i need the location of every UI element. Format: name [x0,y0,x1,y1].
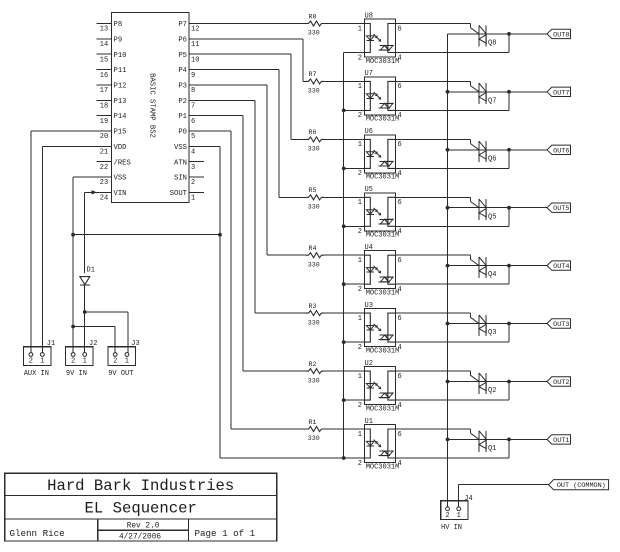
junction ground run / opto ground bus [342,456,346,460]
wire P2 to R3 [204,100,306,313]
svg-text:12: 12 [191,26,199,34]
flag OUT5 [547,203,571,213]
svg-text:330: 330 [308,88,320,95]
junction output node OUT6 [507,148,511,152]
svg-text:6: 6 [191,118,195,126]
pin 9 (P4) of IC, right side [178,67,204,80]
title text Hard Bark Industries [47,477,234,495]
wire J4 pin1 to OUT COMMON [459,485,549,507]
flag OUT2 [547,377,571,387]
svg-text:4: 4 [398,170,402,178]
svg-text:6: 6 [398,431,402,439]
svg-text:Q2: Q2 [488,387,496,395]
pin 10 (P5) of IC, right side [178,52,204,65]
pin 1 (SOUT) of IC, right side [170,190,204,203]
opto-isolator U7 MOC3031M [358,70,402,124]
wire U6 pin2 to ground bus [344,167,365,169]
svg-text:330: 330 [308,435,320,442]
flag OUT (COMMON) [549,480,609,491]
junction ground bus / U2 pin2 [342,398,346,402]
svg-text:HV IN: HV IN [441,524,462,532]
svg-text:OUT2: OUT2 [553,379,569,387]
junction output node OUT4 [507,264,511,268]
wire U7 pin6 to Q7 gate [396,81,480,91]
svg-text:MOC3031M: MOC3031M [366,347,400,355]
triac Q2 [479,373,496,395]
svg-text:330: 330 [308,261,320,268]
wire U6 pin6 to Q6 gate [396,139,480,149]
pin 16 (P11) of IC, left side [97,67,127,80]
wire U4 pin2 to ground bus [344,283,365,285]
svg-text:24: 24 [100,195,108,203]
pin 12 (P7) of IC, right side [178,21,204,34]
flag OUT7 [547,87,571,97]
pin 8 (P3) of IC, right side [178,83,204,96]
svg-text:MOC3031M: MOC3031M [366,405,400,413]
pin 22 (/RES) of IC, left side [97,159,131,172]
svg-text:1: 1 [40,358,44,366]
svg-text:P15: P15 [114,129,127,137]
pin 6 (P1) of IC, right side [178,113,204,126]
svg-text:Q8: Q8 [488,40,496,48]
svg-text:22: 22 [100,164,108,172]
opto-isolator U6 MOC3031M [358,128,402,182]
wire R3 to U3 pin1 [324,312,365,314]
pin 17 (P12) of IC, left side [97,83,127,96]
svg-text:3: 3 [191,164,195,172]
junction HV bus / Q1 [446,438,450,442]
opto-isolator U8 MOC3031M [358,12,402,66]
wire U3 pin4 up to output node [396,324,510,343]
diode D1 [80,267,95,285]
svg-text:P7: P7 [178,21,187,29]
wire U6 pin4 up to output node [396,150,510,169]
svg-text:2: 2 [358,54,362,62]
wire U8 pin4 up to output node [396,34,510,53]
wire Q7 MT2 to OUT7 [486,91,547,93]
pin 13 (P8) of IC, left side [97,21,123,34]
svg-text:2: 2 [445,512,449,520]
svg-text:20: 20 [100,133,108,141]
svg-text:4: 4 [398,286,402,294]
svg-text:1: 1 [358,373,362,381]
wire HV bus to Q3 MT1 [448,323,487,325]
svg-text:1: 1 [358,25,362,33]
wire 9V branch to J3 pin1 [85,312,129,353]
svg-text:9V IN: 9V IN [66,370,87,378]
resistor R5 330 [306,187,324,210]
svg-text:23: 23 [100,179,108,187]
flag OUT4 [547,261,571,271]
svg-text:U2: U2 [365,360,373,368]
svg-text:2: 2 [358,112,362,120]
svg-text:18: 18 [100,102,108,110]
wire U5 pin4 up to output node [396,208,510,227]
wire VSS branch to J3 pin2 [73,327,115,353]
svg-text:2: 2 [358,344,362,352]
svg-text:17: 17 [100,87,108,95]
title block frame [5,473,277,541]
wire HV bus to Q6 MT1 [448,149,487,151]
svg-text:P10: P10 [114,52,127,60]
svg-text:U4: U4 [365,244,373,252]
junction HV bus / Q5 [446,206,450,210]
svg-text:MOC3031M: MOC3031M [366,116,400,124]
svg-text:1: 1 [358,315,362,323]
svg-text:4: 4 [398,112,402,120]
svg-text:2: 2 [113,358,117,366]
svg-text:Q3: Q3 [488,329,496,337]
svg-text:1: 1 [358,257,362,265]
opto-isolator U2 MOC3031M [358,360,402,414]
svg-text:VSS: VSS [174,144,187,152]
junction ground bus / U7 pin2 [342,109,346,113]
svg-text:OUT4: OUT4 [553,263,569,271]
wire Q2 MT2 to OUT2 [486,381,547,383]
pin 18 (P13) of IC, left side [97,98,127,111]
wire U8 pin6 to Q8 gate [396,24,480,34]
svg-text:P4: P4 [178,67,187,75]
svg-text:Glenn Rice: Glenn Rice [10,528,65,539]
junction 9V / J3 branch [83,310,87,314]
svg-text:330: 330 [308,204,320,211]
wire R5 to U5 pin1 [324,196,365,198]
svg-text:P5: P5 [178,52,187,60]
svg-text:21: 21 [100,149,108,157]
svg-text:4: 4 [398,228,402,236]
wire P1 to R2 [204,116,306,372]
svg-text:D1: D1 [87,267,95,275]
pin 19 (P14) of IC, left side [97,113,127,126]
svg-text:2: 2 [358,402,362,410]
title text Glenn Rice [10,528,65,539]
wire U2 pin4 up to output node [396,382,510,401]
svg-text:13: 13 [100,26,108,34]
wire R8 to U8 pin1 [324,23,365,25]
connector J1 AUX IN [23,340,55,378]
svg-text:4: 4 [191,149,195,157]
triac Q4 [479,257,496,279]
resistor R8 330 [306,13,324,36]
svg-text:330: 330 [308,377,320,384]
svg-text:330: 330 [308,30,320,37]
wire D1 to J2 pin1 [84,285,86,353]
title text Page 1 of 1 [195,528,256,539]
svg-text:Q4: Q4 [488,271,496,279]
svg-text:P0: P0 [178,129,187,137]
svg-text:330: 330 [308,146,320,153]
svg-text:/RES: /RES [114,159,131,167]
svg-text:R5: R5 [309,187,317,194]
wire HV bus to Q4 MT1 [448,265,487,267]
resistor R6 330 [306,129,324,152]
wire R1 to U1 pin1 [324,428,365,430]
svg-text:P6: P6 [178,36,187,44]
flag OUT6 [547,145,571,155]
svg-text:4: 4 [398,460,402,468]
svg-text:ATN: ATN [174,159,187,167]
svg-text:2: 2 [358,460,362,468]
opto-isolator U3 MOC3031M [358,302,402,356]
svg-text:R7: R7 [309,71,317,78]
svg-text:OUT3: OUT3 [553,321,569,329]
junction ground bus / U4 pin2 [342,282,346,286]
svg-text:2: 2 [191,179,195,187]
pin 3 (ATN) of IC, right side [174,159,204,172]
opto-isolator U1 MOC3031M [358,418,402,472]
wire U1 pin4 up to output node [396,439,510,458]
svg-text:1: 1 [358,199,362,207]
svg-text:VDD: VDD [114,144,127,152]
wire VIN with arrow [85,190,97,273]
svg-text:OUT (COMMON): OUT (COMMON) [557,482,606,490]
svg-text:6: 6 [398,315,402,323]
flag OUT1 [547,435,571,445]
svg-text:4: 4 [398,54,402,62]
junction output node OUT7 [507,90,511,94]
pin 5 (P0) of IC, right side [178,129,204,142]
svg-text:MOC3031M: MOC3031M [366,174,400,182]
wire HV bus to Q8 MT1 [448,33,487,35]
svg-text:VSS: VSS [114,175,127,183]
svg-text:P1: P1 [178,113,187,121]
junction output node OUT8 [507,32,511,36]
wire P0 to R1 [204,131,306,429]
wire Q6 MT2 to OUT6 [486,149,547,151]
junction HV bus / Q4 [446,264,450,268]
junction HV bus / Q3 [446,322,450,326]
svg-text:MOC3031M: MOC3031M [366,58,400,66]
svg-text:2: 2 [358,170,362,178]
svg-text:MOC3031M: MOC3031M [366,232,400,240]
wire U3 pin2 to ground bus [344,341,365,343]
svg-text:R2: R2 [309,361,317,368]
wire P4 to R5 [204,70,306,198]
svg-text:U6: U6 [365,128,373,136]
svg-text:VIN: VIN [114,190,127,198]
svg-text:1: 1 [457,512,461,520]
triac Q8 [479,25,496,47]
svg-text:11: 11 [191,41,199,49]
svg-text:BASIC STAMP BS2: BASIC STAMP BS2 [148,73,156,138]
svg-text:9V OUT: 9V OUT [108,370,133,378]
title text EL Sequencer [85,499,197,517]
junction output node OUT2 [507,380,511,384]
flag OUT8 [547,29,571,39]
svg-text:1: 1 [125,358,129,366]
junction output node OUT1 [507,438,511,442]
svg-text:6: 6 [398,25,402,33]
wire U3 pin6 to Q3 gate [396,313,480,323]
svg-text:R6: R6 [309,129,317,136]
resistor R3 330 [306,303,324,326]
wire U7 pin4 up to output node [396,92,510,111]
svg-text:U3: U3 [365,302,373,310]
svg-text:U7: U7 [365,70,373,78]
wire HV bus to Q5 MT1 [448,207,487,209]
triac Q6 [479,141,496,163]
svg-text:P13: P13 [114,98,127,106]
pin 24 (VIN) of IC, left side [97,190,127,203]
svg-text:U1: U1 [365,418,373,426]
svg-text:OUT5: OUT5 [553,205,569,213]
svg-text:P12: P12 [114,83,127,91]
svg-text:R3: R3 [309,303,317,310]
svg-text:7: 7 [191,102,195,110]
wire U5 pin2 to ground bus [344,225,365,227]
svg-text:MOC3031M: MOC3031M [366,290,400,298]
svg-text:2: 2 [358,286,362,294]
resistor R2 330 [306,361,324,384]
pin 23 (VSS) of IC, left side [97,175,127,188]
pin 21 (VDD) of IC, left side [97,144,127,157]
wire Q1 MT2 to OUT1 [486,438,547,440]
svg-text:Q1: Q1 [488,445,496,453]
resistor R1 330 [306,419,324,442]
wire U5 pin6 to Q5 gate [396,197,480,207]
svg-text:16: 16 [100,72,108,80]
connector J3 9V OUT [108,340,140,378]
svg-text:Hard Bark Industries: Hard Bark Industries [47,477,234,495]
wire P15 to J1 pin2 [31,131,97,353]
svg-text:R8: R8 [309,13,317,20]
svg-text:1: 1 [358,83,362,91]
svg-text:P3: P3 [178,83,187,91]
wire U1 pin6 to Q1 gate [396,429,480,439]
wire HV bus to Q7 MT1 [448,91,487,93]
svg-text:U8: U8 [365,12,373,20]
svg-text:Q6: Q6 [488,155,496,163]
wire HV bus to Q2 MT1 [448,381,487,383]
op-amp: IC U? BASIC STAMP BS2 microcontroller body [112,13,190,203]
pin 11 (P6) of IC, right side [178,36,204,49]
svg-text:1: 1 [358,431,362,439]
connector J2 9V IN [66,340,98,378]
svg-text:Page 1 of 1: Page 1 of 1 [195,528,256,539]
pin 4 (VSS) of IC, right side [174,144,204,157]
svg-text:6: 6 [398,373,402,381]
svg-text:6: 6 [398,199,402,207]
junction output node OUT3 [507,322,511,326]
svg-text:15: 15 [100,56,108,64]
wire HV bus to Q1 MT1 [448,438,487,440]
pin 15 (P10) of IC, left side [97,52,127,65]
svg-text:6: 6 [398,257,402,265]
resistor R7 330 [306,71,324,94]
svg-text:1: 1 [358,141,362,149]
junction VSS cross link left [71,233,75,237]
wire U2 pin6 to Q2 gate [396,371,480,381]
svg-text:OUT8: OUT8 [553,31,569,39]
svg-text:19: 19 [100,118,108,126]
svg-text:EL Sequencer: EL Sequencer [85,499,197,517]
wire P3 to R4 [204,85,306,255]
wire R4 to U4 pin1 [324,254,365,256]
wire IC VSS pin23 to J2 pin2 [73,177,96,353]
pin 7 (P2) of IC, right side [178,98,204,111]
wire R2 to U2 pin1 [324,370,365,372]
wire ground run to U1 pin2 [344,457,365,459]
title text 4/27/2006 [119,534,161,542]
wire HV bus [447,34,449,507]
wire P7 to R8 [204,23,306,25]
wire U7 pin2 to ground bus [344,109,365,111]
svg-text:R1: R1 [309,419,317,426]
svg-text:4/27/2006: 4/27/2006 [119,534,161,542]
pin 2 (SIN) of IC, right side [174,175,204,188]
svg-text:P8: P8 [114,21,123,29]
svg-text:6: 6 [398,141,402,149]
junction ground bus / U5 pin2 [342,224,346,228]
wire Q5 MT2 to OUT5 [486,207,547,209]
junction VSS / J3 branch [71,325,75,329]
svg-text:SIN: SIN [174,175,187,183]
triac Q1 [479,431,496,453]
wire P6 to R7 [204,39,306,82]
triac Q3 [479,315,496,337]
svg-text:4: 4 [398,402,402,410]
pin 14 (P9) of IC, left side [97,36,123,49]
svg-text:J4: J4 [464,495,472,503]
wire U4 pin6 to Q4 gate [396,255,480,265]
svg-text:6: 6 [398,83,402,91]
svg-text:Q7: Q7 [488,97,496,105]
wire R7 to U7 pin1 [324,80,365,82]
junction VSS cross link right [218,233,222,237]
svg-text:10: 10 [191,56,199,64]
opto-isolator U4 MOC3031M [358,244,402,298]
svg-text:2: 2 [29,358,33,366]
wire U2 pin2 to ground bus [344,399,365,401]
wire IC VSS pin4 to ground run [204,146,344,458]
svg-text:330: 330 [308,319,320,326]
wire U4 pin4 up to output node [396,266,510,285]
svg-text:5: 5 [191,133,195,141]
svg-text:P11: P11 [114,67,127,75]
wire opto ground bus [343,53,345,459]
junction HV bus / Q7 [446,90,450,94]
svg-text:1: 1 [83,358,87,366]
wire R6 to U6 pin1 [324,138,365,140]
junction ground bus / U6 pin2 [342,167,346,171]
wire Q8 MT2 to OUT8 [486,33,547,35]
junction output node OUT5 [507,206,511,210]
svg-text:J3: J3 [131,340,139,348]
svg-text:U5: U5 [365,186,373,194]
junction HV bus / Q6 [446,148,450,152]
svg-text:OUT7: OUT7 [553,89,569,97]
svg-text:AUX IN: AUX IN [24,370,49,378]
triac Q5 [479,199,496,221]
svg-text:9: 9 [191,72,195,80]
svg-text:4: 4 [398,344,402,352]
svg-text:P9: P9 [114,36,123,44]
svg-text:SOUT: SOUT [170,190,188,198]
wire Q4 MT2 to OUT4 [486,265,547,267]
svg-text:8: 8 [191,87,195,95]
wire U8 pin2 to ground bus [344,52,365,54]
junction HV bus / Q2 [446,380,450,384]
wire VDD to J1 pin1 [42,146,96,352]
svg-text:OUT1: OUT1 [553,437,569,445]
pin 20 (P15) of IC, left side [97,129,127,142]
wire Q3 MT2 to OUT3 [486,323,547,325]
svg-text:MOC3031M: MOC3031M [366,463,400,471]
svg-text:1: 1 [191,195,195,203]
svg-text:2: 2 [358,228,362,236]
svg-text:P14: P14 [114,113,127,121]
svg-text:Q5: Q5 [488,213,496,221]
